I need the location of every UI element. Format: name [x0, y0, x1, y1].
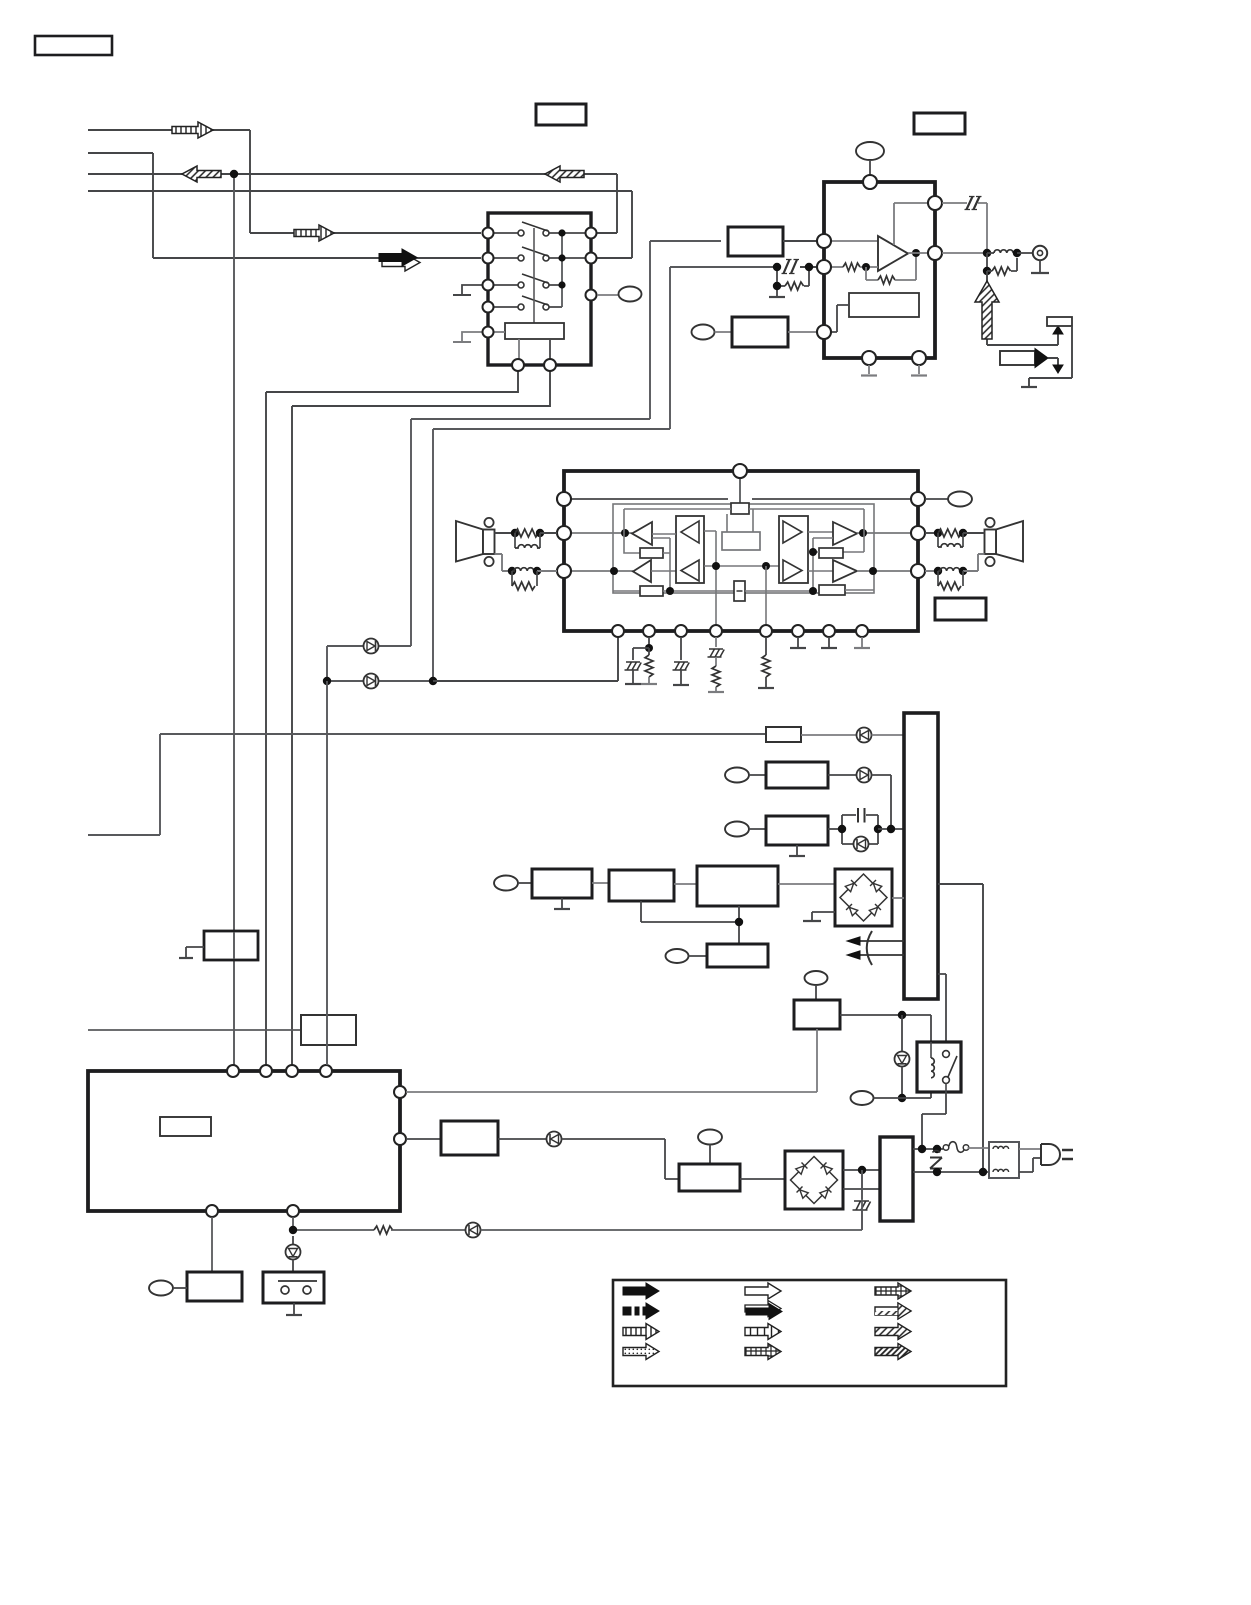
U3 feedback R left top	[624, 533, 670, 591]
legend arrow r3c2 sparse stripe	[745, 1324, 781, 1340]
U3 left driver pair box	[652, 516, 704, 583]
legend arrow r1c3 checker	[875, 1283, 911, 1299]
U3 bias rail	[624, 508, 864, 510]
ground at switch row 5	[453, 332, 482, 342]
bridge rectifier B2	[785, 1151, 843, 1209]
rectifier chain ellipse	[494, 876, 532, 891]
diode D5	[547, 1132, 680, 1180]
legend arrow r1c2 outline	[745, 1283, 781, 1299]
U3 bottom pins	[612, 625, 868, 637]
legend arrow r3c3 diagonal	[875, 1324, 911, 1340]
power amp IC U3	[564, 471, 918, 631]
U3 terminals	[557, 464, 925, 578]
wire bridge B1 to transformer	[892, 897, 904, 899]
LED indicator at relay	[895, 1015, 910, 1102]
wire relay to AC line	[922, 1092, 946, 1149]
label box under right speaker	[935, 598, 986, 620]
U3 right output amp 1	[833, 509, 911, 545]
wire AC line upper with fuse	[913, 1142, 989, 1154]
right speaker SP2	[985, 518, 1024, 566]
wire control row2	[406, 1138, 441, 1140]
system control block	[88, 1071, 400, 1211]
servo box on bus A	[179, 931, 258, 960]
chain box 1	[532, 869, 609, 909]
wire line 4	[88, 191, 632, 258]
wire control to power box	[406, 1029, 817, 1092]
wire bridge B2 outputs	[843, 1166, 880, 1189]
legend arrow r4c3 dense diagonal	[875, 1344, 911, 1360]
wire feed2 to power amp pin1	[433, 637, 618, 681]
diode D4 row2	[857, 768, 892, 830]
switch common bus	[558, 229, 565, 307]
U3 right driver pair box	[779, 516, 833, 583]
power transformer primary block	[880, 1137, 913, 1221]
cap diode parallel row3	[838, 808, 904, 852]
diode D6	[466, 1170, 863, 1238]
switch drive coil box	[494, 323, 564, 359]
wire U2 ripple cap	[942, 197, 987, 250]
pin8 ground stub	[854, 637, 870, 648]
diode D3 row1	[857, 728, 905, 743]
pin4 cap R to ground	[708, 637, 725, 692]
right speaker wire -	[925, 554, 985, 590]
right speaker wire +	[925, 529, 985, 547]
relay RL1	[917, 1042, 961, 1092]
ground at bridge B1	[803, 912, 835, 921]
U3 center bias block	[722, 509, 760, 550]
wire input line 2	[88, 153, 481, 258]
wire transformer to AC filter vertical	[938, 884, 983, 1172]
left speaker wire +	[495, 529, 558, 548]
wire switch out 1 to bus	[266, 371, 518, 1065]
resistor block row1	[766, 727, 856, 742]
legend arrow r4c2 grid	[745, 1344, 781, 1360]
ground at switch row 3	[453, 285, 482, 295]
signal arrow hatched left on line 3 b	[545, 166, 584, 182]
signal arrow solid black	[379, 249, 420, 271]
wire monitor line 3	[88, 174, 617, 233]
pin2 RC to ground	[625, 637, 658, 684]
switch contact row 4	[494, 296, 562, 310]
wire switch out 2 to bus	[292, 371, 550, 1065]
headphone amp IC U2	[824, 182, 935, 358]
U3 inner cell frame	[613, 504, 874, 593]
node on line 3	[230, 170, 238, 178]
grounds under U2	[861, 365, 927, 376]
switch actuator link	[533, 228, 535, 323]
power transformer secondary block	[904, 713, 938, 999]
legend arrow r2c3 half hatch	[875, 1303, 911, 1319]
display box on bus D	[301, 1015, 356, 1045]
AC line filter box	[989, 1142, 1019, 1178]
wire bus D lower	[326, 681, 328, 1065]
battery box	[263, 1272, 324, 1315]
AC plug	[1019, 1144, 1073, 1172]
power detect box	[441, 1121, 547, 1155]
label box top-left	[35, 36, 112, 55]
pin5 R to ground	[758, 637, 774, 688]
regulator box row2	[766, 762, 856, 788]
function switch S1 box	[488, 213, 591, 365]
system control bottom terminals	[206, 1205, 299, 1217]
regulator box row3	[766, 816, 842, 856]
U3 center coupling cap	[734, 581, 813, 601]
signal arrow striped right on line 1	[172, 122, 213, 138]
U3 left input amp 1	[571, 509, 652, 545]
input block box 1	[728, 227, 817, 256]
wire input line 1	[88, 130, 481, 233]
signal arrow striped right before switch	[294, 225, 334, 241]
diode D1 in circle	[364, 639, 379, 654]
RC network at U2 input	[769, 260, 817, 298]
connector ellipse right of U3	[925, 492, 972, 507]
node headphone feed junction a	[323, 677, 331, 685]
input block box 2	[692, 317, 818, 347]
legend arrow r4c1 dotted	[623, 1344, 659, 1360]
wire headphone feed 1	[327, 241, 721, 646]
sub box with ellipse	[666, 944, 769, 967]
U3 left input amp 2	[571, 560, 676, 582]
wire jack detect down	[987, 271, 1058, 345]
U2 terminals	[817, 175, 942, 365]
connector ellipse at relay	[851, 1078, 932, 1105]
LED standby	[286, 1236, 301, 1272]
cap at bridge B2	[853, 1170, 871, 1230]
label box above switch	[536, 104, 586, 125]
switch right terminals	[586, 228, 597, 301]
headphone board connector	[1021, 317, 1072, 387]
chain box 2	[609, 870, 697, 901]
wire transformer tap to relay contact	[938, 974, 946, 1051]
wire standby feed bottom	[289, 1217, 466, 1234]
node headphone feed junction b	[429, 677, 437, 685]
legend box	[613, 1280, 1006, 1386]
headphone jack J1	[1031, 246, 1049, 273]
wire supply row1 long	[88, 734, 766, 835]
op-amp U2 internals	[831, 203, 928, 284]
label box inside system control	[160, 1117, 211, 1136]
switch contact row 3	[494, 274, 562, 288]
left speaker wire -	[495, 554, 558, 590]
legend arrow r2c1 segmented	[623, 1303, 659, 1319]
pin6 ground stub	[790, 637, 806, 648]
connector ellipse right of switch	[597, 287, 642, 302]
signal arrow hatched left on line 3 a	[182, 166, 221, 182]
pin7 ground stub	[821, 637, 837, 648]
label box top-right	[914, 113, 965, 134]
legend arrow r1c1 solid	[623, 1283, 659, 1299]
U3 feedback R right top	[809, 533, 864, 591]
thermal fuse Z symbol	[930, 1151, 942, 1169]
U3 right output amp 2	[833, 560, 911, 582]
left speaker SP1	[456, 518, 495, 566]
U3 feedback R right bottom	[809, 585, 874, 595]
wire U2 output to jack	[942, 249, 1033, 257]
switch contact row 2	[494, 247, 585, 261]
U3 mid rail to pins	[704, 531, 779, 631]
wire display feed	[88, 1029, 301, 1031]
switch bottom terminals	[512, 359, 556, 371]
bridge rectifier B1	[835, 869, 892, 926]
switch contact row 1	[494, 222, 585, 236]
power control box	[794, 971, 931, 1042]
wire headphone feed 2	[327, 267, 773, 681]
system control top terminals	[227, 1065, 332, 1077]
wire chain sub branch	[641, 901, 743, 944]
U3 Vcc rail	[571, 498, 911, 500]
legend arrow r3c1 vstripe	[623, 1324, 659, 1340]
resistor parallel at jack	[983, 253, 1017, 275]
diode D2 in circle	[364, 674, 379, 689]
signal arrow hatched up at jack	[975, 281, 999, 339]
connector ellipse row3	[725, 822, 766, 837]
connector ellipse row2	[725, 768, 766, 783]
chain box 3	[697, 866, 835, 906]
mute block inside U2	[831, 293, 919, 332]
timer box bottom left	[149, 1217, 242, 1301]
AC in sub box	[679, 1130, 785, 1192]
system control right terminals	[394, 1086, 406, 1145]
AC receive arrows	[847, 931, 904, 965]
connector ellipse above U2	[856, 142, 884, 175]
switch left terminals	[483, 228, 494, 338]
pin3 cap to ground	[673, 637, 690, 685]
headphone plug symbol	[1000, 349, 1063, 374]
U3 feedback R left bottom	[613, 586, 734, 596]
bus wire from node to system control	[233, 178, 235, 1065]
U3 top feed block	[731, 478, 749, 514]
wire AC line lower	[913, 1168, 989, 1176]
legend arrow r2c2 solid	[745, 1301, 782, 1320]
